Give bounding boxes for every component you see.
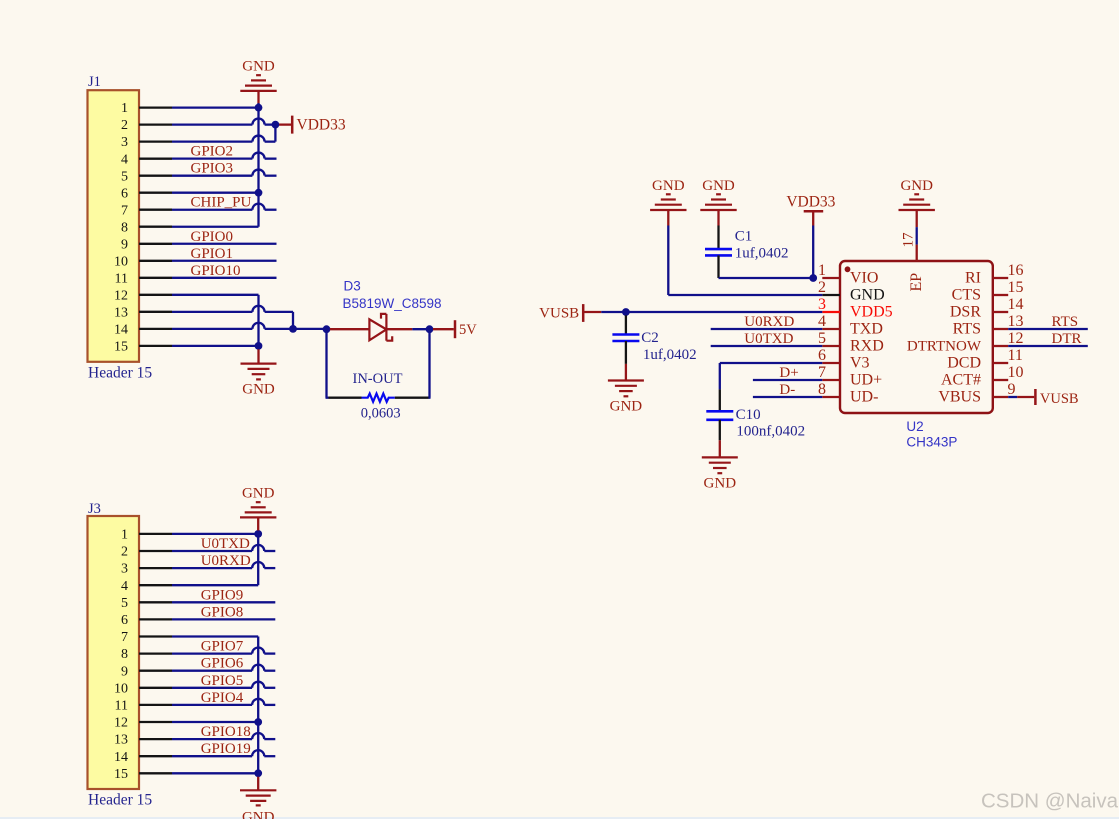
svg-text:U0RXD: U0RXD [201, 553, 251, 569]
svg-text:U0TXD: U0TXD [744, 331, 793, 347]
svg-text:2: 2 [121, 118, 128, 133]
svg-text:GND: GND [242, 485, 275, 501]
svg-text:2: 2 [818, 279, 826, 296]
svg-text:5V: 5V [459, 322, 477, 338]
svg-text:EP: EP [908, 273, 925, 292]
svg-text:8: 8 [121, 220, 128, 235]
svg-text:GND: GND [652, 178, 685, 194]
svg-text:VIO: VIO [850, 270, 878, 287]
svg-text:CH343P: CH343P [906, 434, 957, 449]
svg-text:14: 14 [1008, 296, 1024, 313]
svg-text:1uf,0402: 1uf,0402 [735, 246, 789, 262]
svg-text:3: 3 [121, 135, 128, 150]
svg-text:8: 8 [121, 647, 128, 662]
svg-text:B5819W_C8598: B5819W_C8598 [343, 296, 442, 311]
svg-text:12: 12 [114, 288, 128, 303]
svg-text:1uf,0402: 1uf,0402 [643, 347, 697, 363]
svg-text:DTRTNOW: DTRTNOW [907, 339, 982, 355]
svg-text:5: 5 [121, 169, 128, 184]
svg-text:9: 9 [121, 237, 128, 252]
svg-text:RXD: RXD [850, 338, 884, 355]
svg-text:9: 9 [121, 664, 128, 679]
svg-text:CHIP_PU: CHIP_PU [191, 195, 252, 211]
svg-text:16: 16 [1008, 262, 1024, 279]
svg-text:6: 6 [121, 186, 128, 201]
svg-text:4: 4 [121, 579, 128, 594]
svg-text:GPIO1: GPIO1 [191, 246, 234, 262]
svg-text:GPIO6: GPIO6 [201, 656, 244, 672]
svg-text:13: 13 [114, 305, 128, 320]
svg-text:4: 4 [121, 152, 128, 167]
svg-text:GPIO3: GPIO3 [191, 161, 234, 177]
svg-text:7: 7 [818, 364, 826, 381]
svg-text:GPIO7: GPIO7 [201, 639, 244, 655]
svg-text:Header 15: Header 15 [88, 365, 152, 382]
svg-text:VDD33: VDD33 [786, 194, 835, 211]
svg-text:GPIO19: GPIO19 [201, 741, 251, 757]
svg-text:6: 6 [818, 347, 826, 364]
svg-text:V3: V3 [850, 355, 870, 372]
svg-text:J1: J1 [88, 74, 101, 90]
svg-text:6: 6 [121, 613, 128, 628]
svg-text:GND: GND [242, 59, 275, 75]
svg-text:14: 14 [114, 323, 128, 338]
svg-text:D+: D+ [779, 365, 798, 381]
svg-text:CTS: CTS [952, 287, 981, 304]
svg-text:GPIO18: GPIO18 [201, 724, 251, 740]
svg-text:13: 13 [114, 733, 128, 748]
svg-text:Header 15: Header 15 [88, 792, 152, 809]
svg-text:DTR: DTR [1052, 331, 1082, 347]
svg-text:GPIO0: GPIO0 [191, 229, 234, 245]
svg-text:VDD33: VDD33 [297, 116, 346, 133]
svg-text:VBUS: VBUS [938, 389, 981, 406]
svg-text:11: 11 [115, 699, 128, 714]
svg-text:15: 15 [114, 767, 128, 782]
svg-text:7: 7 [121, 203, 128, 218]
svg-text:C2: C2 [641, 330, 659, 346]
svg-text:2: 2 [121, 545, 128, 560]
svg-text:10: 10 [114, 681, 128, 696]
svg-text:ACT#: ACT# [941, 372, 981, 389]
svg-text:U2: U2 [906, 419, 923, 434]
svg-text:4: 4 [818, 313, 826, 330]
svg-text:10: 10 [1008, 364, 1024, 381]
svg-text:VUSB: VUSB [539, 305, 579, 321]
svg-text:GND: GND [702, 178, 735, 194]
svg-text:12: 12 [1008, 330, 1024, 347]
svg-text:UD+: UD+ [850, 372, 882, 389]
svg-text:8: 8 [818, 381, 826, 398]
svg-text:13: 13 [1008, 313, 1024, 330]
svg-text:U0TXD: U0TXD [201, 536, 250, 552]
svg-text:RI: RI [965, 270, 981, 287]
svg-text:15: 15 [1008, 279, 1024, 296]
svg-text:GPIO4: GPIO4 [201, 690, 244, 706]
svg-text:5: 5 [121, 596, 128, 611]
svg-text:RTS: RTS [1052, 314, 1079, 330]
svg-text:D3: D3 [344, 279, 361, 294]
svg-text:C10: C10 [736, 407, 761, 423]
svg-text:CSDN @Naiva: CSDN @Naiva [981, 790, 1119, 813]
svg-text:14: 14 [114, 750, 128, 765]
svg-text:D-: D- [779, 382, 795, 398]
svg-text:UD-: UD- [850, 389, 878, 406]
svg-text:5: 5 [818, 330, 826, 347]
svg-text:9: 9 [1008, 381, 1016, 398]
svg-text:TXD: TXD [850, 321, 883, 338]
svg-text:GPIO10: GPIO10 [191, 263, 241, 279]
svg-text:3: 3 [818, 296, 826, 313]
svg-text:GPIO5: GPIO5 [201, 673, 244, 689]
svg-text:DSR: DSR [950, 304, 981, 321]
svg-text:10: 10 [114, 254, 128, 269]
svg-text:GPIO2: GPIO2 [191, 144, 234, 160]
svg-text:C1: C1 [735, 228, 753, 244]
svg-text:GND: GND [242, 381, 275, 397]
svg-text:GND: GND [900, 178, 933, 194]
svg-text:1: 1 [818, 262, 826, 279]
svg-text:100nf,0402: 100nf,0402 [736, 424, 805, 440]
svg-text:J3: J3 [88, 501, 101, 517]
svg-text:17: 17 [901, 232, 917, 248]
svg-text:U0RXD: U0RXD [744, 314, 794, 330]
svg-text:VDD5: VDD5 [850, 304, 893, 321]
svg-text:11: 11 [115, 271, 128, 286]
svg-text:IN-OUT: IN-OUT [353, 371, 403, 387]
svg-text:GPIO8: GPIO8 [201, 604, 244, 620]
svg-text:3: 3 [121, 562, 128, 577]
svg-text:RTS: RTS [953, 321, 981, 338]
svg-text:1: 1 [121, 528, 128, 543]
svg-text:VUSB: VUSB [1040, 391, 1079, 407]
svg-text:GPIO9: GPIO9 [201, 587, 244, 603]
svg-text:11: 11 [1008, 347, 1023, 364]
svg-text:7: 7 [121, 630, 128, 645]
svg-text:15: 15 [114, 340, 128, 355]
svg-text:GND: GND [704, 475, 737, 491]
svg-text:GND: GND [242, 810, 275, 819]
svg-text:12: 12 [114, 716, 128, 731]
svg-text:DCD: DCD [947, 355, 981, 372]
svg-text:GND: GND [610, 399, 643, 415]
svg-text:0,0603: 0,0603 [361, 405, 401, 421]
svg-text:1: 1 [121, 101, 128, 116]
svg-text:GND: GND [850, 287, 885, 304]
